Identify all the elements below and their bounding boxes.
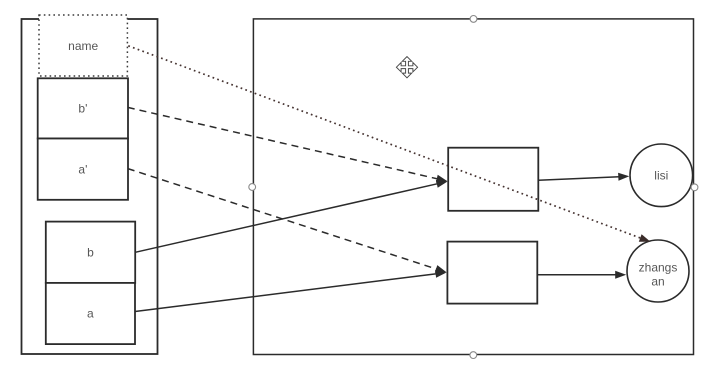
svg-text:an: an: [651, 274, 664, 288]
wire dashed arrow a' to lower heap rect: [128, 169, 447, 273]
selection handle bottom: [470, 352, 477, 359]
stack frame container (left tall rectangle): [22, 19, 158, 354]
box b: [46, 222, 135, 283]
wire dashed arrow b' to upper heap rect: [128, 107, 448, 182]
box a: [46, 283, 135, 344]
wire solid arrow a to lower heap rect: [135, 270, 447, 312]
wire dotted arrow name to zhangsan: [128, 46, 650, 242]
svg-text:b': b': [78, 102, 87, 116]
circle lisi: [630, 144, 693, 207]
selection handle left: [249, 184, 256, 191]
wire solid arrow lower heap rect to zhangsan: [537, 271, 626, 279]
wire solid arrow b to upper heap rect: [135, 180, 447, 252]
svg-text:a': a': [78, 162, 87, 176]
svg-text:lisi: lisi: [654, 169, 668, 183]
circle zhangsan: [627, 240, 689, 302]
move cursor icon: [396, 57, 417, 78]
svg-text:name: name: [68, 39, 98, 53]
svg-text:zhangs: zhangs: [639, 260, 678, 274]
wire solid arrow upper heap rect to lisi: [538, 173, 629, 181]
box b': [38, 78, 128, 138]
selection handle top: [470, 16, 477, 23]
selection handle right: [691, 184, 698, 191]
box name (dotted): [39, 15, 127, 76]
heap object rect upper: [448, 148, 538, 211]
heap object rect lower: [447, 242, 537, 304]
box a': [38, 139, 128, 200]
heap container (right large rectangle): [253, 19, 693, 355]
svg-text:a: a: [87, 307, 94, 321]
svg-text:b: b: [87, 245, 94, 259]
